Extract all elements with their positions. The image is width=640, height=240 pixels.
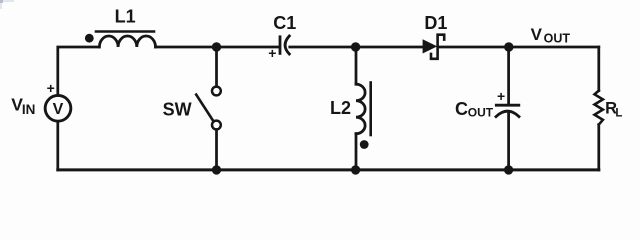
wire L2 lower (coil to bottom rail) [355,134,358,170]
svg-text:V: V [53,101,64,118]
svg-text:IN: IN [22,102,36,117]
junction dot bottom of switch [212,165,221,174]
inductor L2 core bar [369,83,372,136]
svg-text:L2: L2 [330,98,351,118]
svg-text:C: C [455,99,468,119]
diode D1 schottky cathode bar [431,35,444,59]
wire COUT upper (VOUT node to plate) [507,47,510,104]
svg-text:+: + [497,88,505,104]
resistor RL zigzag [595,91,603,125]
junction dot bottom of L2 [351,165,360,174]
wire L1 to C1 (through node A) [156,46,280,49]
junction dot bottom of COUT [504,165,513,174]
wire D1 to top-right corner (through VOUT node) [439,46,599,49]
node VOUT junction dot [504,42,513,51]
wire input bottom-left (source to bottom rail) [56,122,59,170]
svg-text:L1: L1 [115,7,136,27]
wire input top-left (source to L1) [58,47,99,95]
wire switch upper (node A to contact) [215,47,218,86]
svg-text:L: L [615,108,622,120]
svg-text:V: V [531,25,543,44]
inductor L1 coil [99,36,155,47]
L2 polarity dot [360,140,369,149]
voltage source VIN circle [45,95,71,121]
wire bottom rail [58,168,599,171]
inductor L2 coil [356,84,365,134]
capacitor C1 right curved plate [285,36,289,54]
svg-text:OUT: OUT [468,106,494,120]
inductor L1 core bar [96,30,154,33]
diode D1 triangle [423,39,438,53]
wire right vertical upper (corner to RL) [597,47,600,91]
svg-text:C1: C1 [273,13,296,33]
node B junction dot (top of L2) [351,42,360,51]
wire C1 to D1 (through node B) [290,46,423,49]
wire COUT lower (plate to bottom rail) [507,114,510,170]
wire L2 upper (node B to coil) [355,47,358,84]
svg-text:SW: SW [163,100,192,120]
wire switch lower (contact to bottom rail) [215,130,218,170]
node A junction dot (top of switch) [212,42,221,51]
wire right vertical lower (RL to bottom rail) [597,125,600,170]
switch SW lower contact [212,121,221,130]
switch SW upper contact [212,87,221,96]
capacitor COUT top plate [496,104,519,107]
svg-text:D1: D1 [424,13,447,33]
corner artifact top-left [0,0,14,9]
L1 polarity dot [85,34,94,43]
svg-text:+: + [47,80,55,96]
svg-text:+: + [268,45,276,61]
svg-text:OUT: OUT [544,32,571,46]
capacitor C1 left plate [279,37,282,54]
switch SW blade [196,95,212,120]
capacitor COUT bottom curved plate [496,111,519,117]
